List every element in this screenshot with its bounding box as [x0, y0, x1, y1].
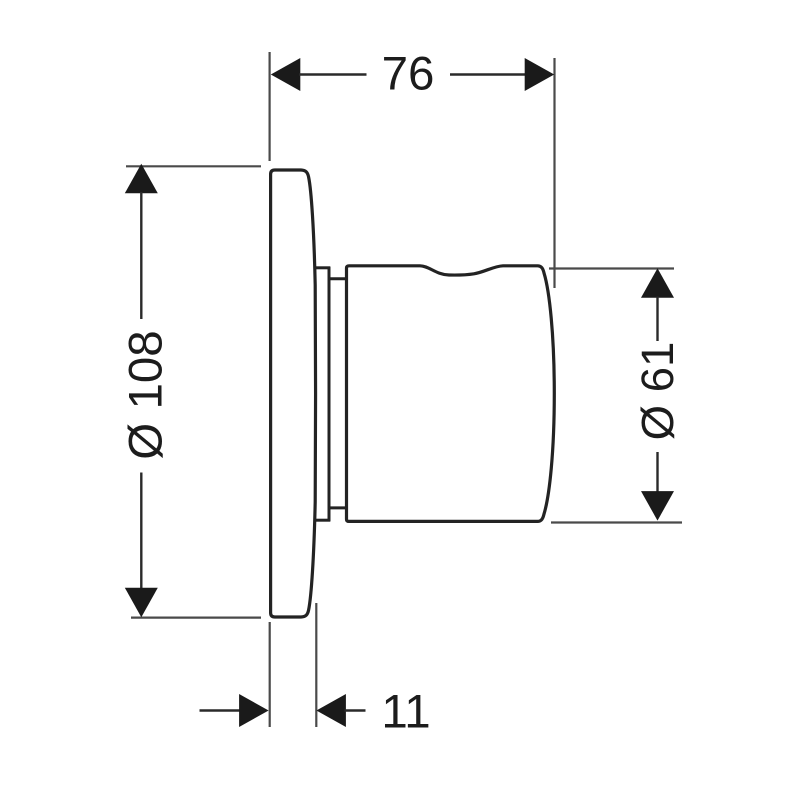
- dimension 76: left arrowhead: [271, 58, 301, 91]
- svg-text:11: 11: [381, 686, 430, 739]
- sleeve ring inner: bottom edge: [329, 506, 346, 509]
- dimension 76: line left segment: [299, 73, 367, 75]
- dimension 11: left tail line: [200, 709, 242, 711]
- sleeve ring outer: top edge: [314, 266, 330, 269]
- dimension 11: right extension line: [315, 603, 317, 727]
- dimension 11: right arrowhead (points left): [316, 694, 346, 727]
- svg-text:76: 76: [382, 47, 435, 100]
- dimension 76: right extension line: [553, 58, 555, 288]
- dimension D61: top extension line: [549, 267, 674, 269]
- dimension D61: down arrowhead: [641, 491, 674, 520]
- dimension 76: line right segment: [450, 73, 526, 75]
- dimension D61: line lower segment: [656, 452, 658, 493]
- dimension 11: left extension line: [269, 622, 271, 727]
- dimension 11: right tail line: [345, 709, 366, 711]
- sleeve ring outer: right edge: [328, 267, 331, 522]
- svg-text:Ø 61: Ø 61: [632, 342, 683, 441]
- handle body (side profile with grip notch): [347, 266, 555, 522]
- dimension D108: line lower segment: [140, 473, 142, 590]
- dimension D108: line upper segment: [140, 192, 142, 319]
- dimension 76: right arrowhead: [525, 58, 555, 91]
- sleeve ring inner: top edge: [329, 277, 346, 280]
- sleeve ring outer: bottom edge: [314, 519, 330, 522]
- svg-text:Ø 108: Ø 108: [120, 330, 173, 459]
- dimension D108: up arrowhead: [125, 164, 158, 194]
- escutcheon plate (side profile): [271, 170, 316, 617]
- dimension D61: bottom extension line: [551, 521, 682, 523]
- dimension D108: top extension line: [126, 165, 261, 167]
- dimension D108: bottom extension line: [131, 616, 261, 618]
- dimension D108: down arrowhead: [125, 588, 158, 618]
- dimension D61: up arrowhead: [641, 268, 674, 298]
- dimension 11: left arrowhead (points right): [239, 694, 269, 727]
- dimension D61: line upper segment: [656, 297, 658, 342]
- dimension 76: left extension line: [269, 52, 271, 161]
